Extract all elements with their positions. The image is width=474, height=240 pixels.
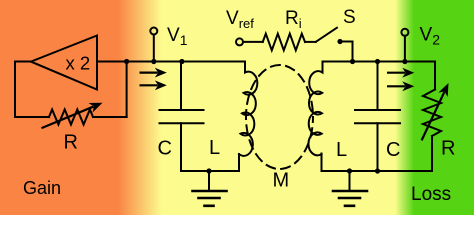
junction node right ground xyxy=(347,168,352,173)
capacitor C right plates xyxy=(355,110,400,123)
capacitor C left plates xyxy=(160,110,204,123)
junction node on bus at feedback xyxy=(124,59,129,64)
resistor R1 feedback zigzag xyxy=(49,110,93,125)
wire Ri to switch xyxy=(305,41,316,43)
node V2 terminal circle xyxy=(401,29,408,36)
inductor L right coil xyxy=(308,62,322,156)
wire switch contact to right bus xyxy=(340,42,353,62)
inductor L left coil xyxy=(239,62,257,156)
switch S arm xyxy=(316,28,337,42)
wire feedback bottom left segment xyxy=(15,116,49,118)
op-amp U1 gain block triangle xyxy=(31,36,97,90)
junction node right capacitor on bus xyxy=(375,59,380,64)
wire feedback left vertical xyxy=(14,62,16,118)
mutual inductance M dashed ellipse xyxy=(246,65,313,169)
capacitor C right top lead xyxy=(377,62,379,110)
junction node right capacitor bottom xyxy=(375,168,380,173)
wire Vref to Ri xyxy=(243,41,263,43)
ground left xyxy=(193,191,227,206)
svg-text:Ri: Ri xyxy=(285,8,302,31)
svg-text:Gain: Gain xyxy=(23,178,61,198)
wire V2 drop xyxy=(404,36,406,62)
current arrow right lower xyxy=(387,81,414,91)
current arrow right upper xyxy=(387,68,414,78)
svg-text:M: M xyxy=(273,170,290,192)
node Vref terminal circle xyxy=(236,38,243,45)
junction node left ground xyxy=(206,168,211,173)
svg-text:L: L xyxy=(336,139,347,161)
arrow through loss resistor R2 xyxy=(421,83,449,141)
junction node left capacitor on bus xyxy=(179,59,184,64)
resistor R2 loss zigzag xyxy=(423,90,441,137)
wire inductor L left bottom lead xyxy=(238,154,240,171)
current arrow left upper xyxy=(140,68,167,78)
node V1 terminal circle xyxy=(150,28,157,35)
wire left tank bottom xyxy=(181,170,239,172)
junction node V2 on bus xyxy=(402,59,407,64)
capacitor C left bottom lead xyxy=(180,123,182,171)
wire feedback right vertical xyxy=(126,62,128,118)
svg-text:V2: V2 xyxy=(420,25,441,48)
wire apex of U1 to feedback left xyxy=(15,61,31,63)
junction node switch contact xyxy=(337,39,342,44)
svg-text:C: C xyxy=(158,138,172,160)
wire inductor L right bottom lead xyxy=(321,154,323,172)
svg-text:R: R xyxy=(441,138,455,160)
svg-text:Vref: Vref xyxy=(226,8,254,31)
junction node switch on right bus xyxy=(350,59,355,64)
capacitor C right bottom lead xyxy=(377,123,379,171)
wire left ground stub xyxy=(208,171,210,190)
svg-text:C: C xyxy=(386,139,400,161)
svg-text:x 2: x 2 xyxy=(66,53,91,74)
ground right xyxy=(333,191,367,206)
svg-text:Loss: Loss xyxy=(411,184,451,205)
wire right tank bottom xyxy=(322,170,432,172)
capacitor C left top lead xyxy=(180,62,182,110)
wire feedback bottom right segment xyxy=(93,116,127,118)
resistor R2 loss bottom lead xyxy=(431,136,433,171)
wire U1 output bus to left tank xyxy=(97,61,245,63)
wire right bus xyxy=(323,61,436,63)
svg-text:R: R xyxy=(64,132,78,154)
wire V1 drop xyxy=(153,35,155,62)
junction node V1 on bus xyxy=(151,59,156,64)
arrow through feedback resistor R1 xyxy=(41,103,102,129)
svg-text:V1: V1 xyxy=(167,25,188,48)
current arrow left lower xyxy=(140,80,167,90)
wire right ground stub xyxy=(349,171,351,190)
resistor R2 loss top lead xyxy=(434,62,436,90)
resistor Ri zigzag xyxy=(263,34,305,51)
svg-text:S: S xyxy=(343,7,356,28)
svg-text:L: L xyxy=(209,137,220,159)
